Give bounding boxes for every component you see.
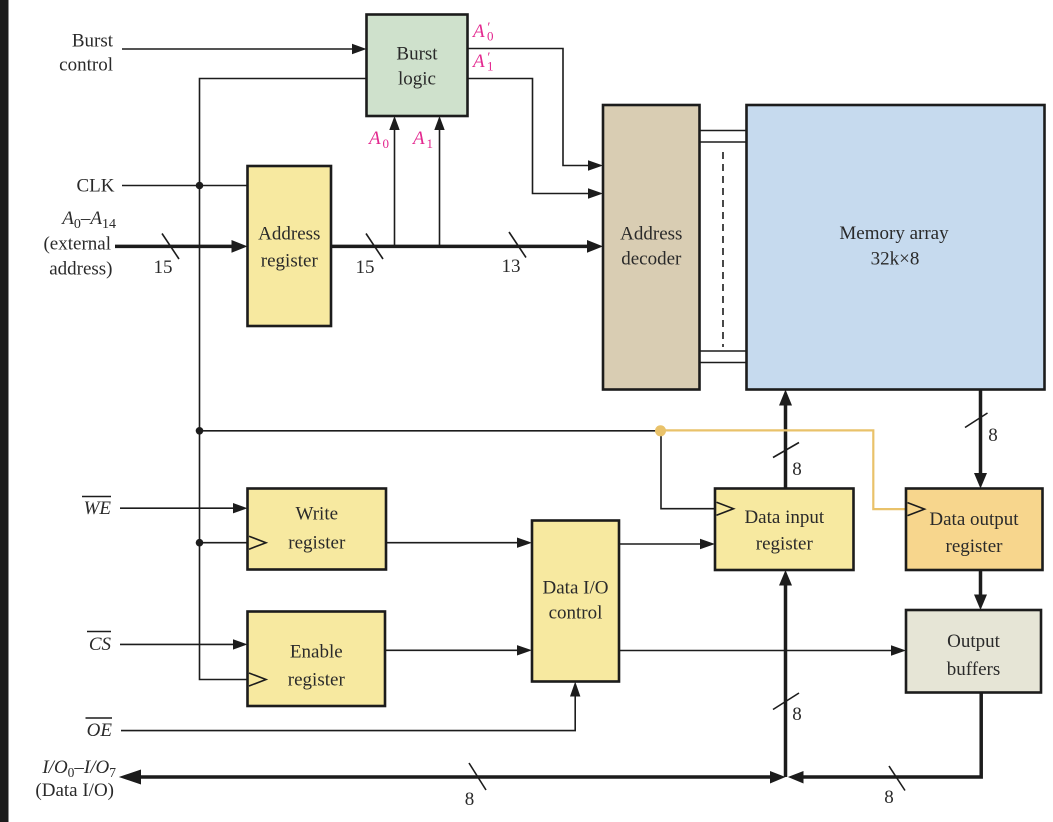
- node junction at data clock line: [196, 427, 204, 435]
- svg-text:control: control: [59, 55, 113, 76]
- bus slash 8 (right segment): [889, 766, 905, 791]
- node junction at write register clock: [196, 539, 204, 547]
- label A0-A14 external address: [43, 208, 116, 280]
- wire data input register to memory array (bus up): [779, 390, 792, 489]
- svg-text:Output: Output: [947, 631, 1001, 652]
- wire OE to data I/O control bottom: [121, 682, 580, 731]
- svg-text:Memory array: Memory array: [839, 223, 949, 244]
- wire A0 from bus up to burst logic: [389, 116, 399, 246]
- scan border left strip: [0, 0, 9, 822]
- svg-text:register: register: [756, 534, 814, 555]
- wire CLK input to address register: [122, 185, 248, 187]
- svg-text:15: 15: [154, 257, 173, 278]
- svg-text:Address: Address: [258, 224, 320, 245]
- svg-text:Burst: Burst: [396, 44, 438, 65]
- bus slash 8 (data out): [965, 413, 988, 428]
- svg-text:Data input: Data input: [744, 507, 824, 528]
- component address decoder: [603, 105, 700, 390]
- wire data I/O control to output buffers: [619, 645, 906, 655]
- svg-text:CLK: CLK: [77, 176, 115, 197]
- wire CS into enable register: [120, 639, 248, 649]
- label WE with overline: [82, 497, 111, 520]
- component output buffers: [906, 610, 1041, 693]
- wire ribbon decoder to memory bottom lines: [700, 351, 747, 363]
- wire A'1 from burst logic to address decoder: [468, 79, 604, 199]
- wire write register to data I/O control: [386, 538, 532, 548]
- svg-text:8: 8: [988, 425, 998, 446]
- component memory array: [747, 105, 1045, 390]
- bus slash 15 (internal): [366, 234, 383, 260]
- pin clock input of data output register: [908, 503, 925, 516]
- component enable register: [248, 612, 386, 707]
- pin clock input of write register: [249, 536, 266, 549]
- label OE with overline: [86, 718, 113, 741]
- svg-text:8: 8: [465, 789, 475, 810]
- wire ribbon decoder to memory top lines: [700, 131, 747, 143]
- svg-text:Enable: Enable: [290, 642, 343, 663]
- svg-text:Burst: Burst: [72, 31, 114, 52]
- component data output register: [906, 489, 1043, 571]
- svg-text:buffers: buffers: [947, 659, 1000, 680]
- pin clock input of address register: [249, 179, 266, 192]
- svg-text:(external: (external: [43, 234, 111, 255]
- wire Burst control to burst logic: [122, 44, 367, 54]
- component data I/O control: [532, 521, 619, 682]
- svg-text:8: 8: [792, 704, 802, 725]
- svg-text:Data I/O: Data I/O: [543, 578, 609, 599]
- bus slash 8 (below data input): [773, 693, 799, 710]
- component data input register: [715, 489, 854, 571]
- svg-text:15: 15: [356, 257, 375, 278]
- wire external address bus into address register: [115, 240, 248, 253]
- svg-text:register: register: [261, 251, 319, 272]
- wire A1 from bus up to burst logic: [434, 116, 444, 246]
- label I/O0-I/O7 (Data I/O): [35, 757, 116, 801]
- wire ribbon dashed continuation line: [722, 152, 724, 347]
- wire write register clock from rail: [200, 542, 248, 544]
- node orange junction dot: [655, 425, 666, 436]
- wire A'0 from burst logic to address decoder: [468, 49, 604, 171]
- wire address bus from register to decoder: [331, 240, 603, 253]
- wire CLK rail (vertical) with corner to burst logic and enable register clock: [200, 79, 367, 680]
- wire orange clock to data output register: [664, 430, 906, 509]
- svg-text:13: 13: [502, 256, 521, 277]
- bus slash 15 (external): [162, 234, 179, 260]
- wire data output register to output buffers: [974, 570, 987, 610]
- svg-text:register: register: [288, 670, 346, 691]
- svg-text:Address: Address: [620, 224, 682, 245]
- svg-text:address): address): [49, 259, 112, 280]
- wire memory array to data output register (bus down): [974, 390, 987, 489]
- wire I/O bus up into data input register: [779, 570, 792, 777]
- svg-text:32k×8: 32k×8: [871, 249, 920, 270]
- pin clock input of enable register: [249, 673, 266, 686]
- svg-text:register: register: [288, 533, 346, 554]
- bus slash 8 (data in): [773, 443, 799, 458]
- svg-text:control: control: [549, 603, 603, 624]
- svg-text:logic: logic: [398, 69, 436, 90]
- label Burst control: [59, 31, 114, 76]
- node CLK junction at CLK input: [196, 182, 204, 190]
- svg-text:CS: CS: [89, 634, 112, 655]
- svg-text:(Data I/O): (Data I/O): [35, 780, 114, 801]
- svg-text:decoder: decoder: [621, 249, 682, 270]
- bus slash 8 (left segment): [469, 763, 486, 790]
- svg-text:WE: WE: [84, 498, 112, 519]
- wire data I/O control to data input register: [619, 539, 715, 549]
- svg-text:8: 8: [792, 459, 802, 480]
- wire output buffers down to I/O bus: [788, 692, 981, 783]
- svg-text:8: 8: [884, 787, 894, 808]
- svg-text:Write: Write: [296, 504, 339, 525]
- svg-text:OE: OE: [87, 720, 113, 741]
- svg-text:register: register: [946, 536, 1004, 557]
- wire main I/O bus (bidirectional): [119, 770, 786, 785]
- component address register: [248, 166, 332, 326]
- pin clock input of data input register: [717, 502, 734, 515]
- svg-text:I/O0–I/O7: I/O0–I/O7: [41, 757, 116, 780]
- wire WE into write register: [120, 503, 248, 513]
- wire clock drop to data input register: [661, 431, 715, 509]
- svg-text:Data output: Data output: [929, 509, 1019, 530]
- component write register: [248, 489, 387, 570]
- label CS with overline: [87, 632, 111, 656]
- component burst logic: [367, 15, 468, 117]
- wire clock line to data registers (horizontal): [200, 430, 661, 432]
- bus slash 13: [509, 232, 526, 258]
- wire enable register to data I/O control: [385, 645, 532, 655]
